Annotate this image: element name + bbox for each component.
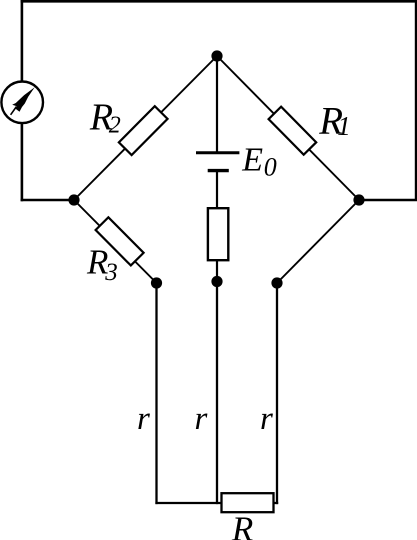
svg-text:E: E <box>241 141 263 178</box>
resistor R body (bottom) <box>222 493 274 512</box>
node left <box>68 194 79 205</box>
node lower-right <box>271 277 282 288</box>
svg-text:3: 3 <box>104 259 118 286</box>
label E0 <box>241 141 276 181</box>
resistor R2 body <box>119 106 168 155</box>
galvanometer <box>1 82 43 124</box>
label R1 <box>318 100 351 143</box>
wire right vertical <box>415 0 417 200</box>
node lower-center <box>211 276 222 287</box>
node right <box>353 194 364 205</box>
svg-text:r: r <box>195 401 208 437</box>
svg-text:r: r <box>260 401 273 437</box>
wire center r vertical <box>216 282 218 505</box>
wire bottom horizontal <box>155 502 278 504</box>
wire diagonal left node to lower-left node <box>74 200 157 283</box>
wire right r vertical <box>276 283 278 504</box>
wire top horizontal <box>21 0 417 3</box>
svg-text:1: 1 <box>337 111 351 141</box>
wire left vertical upper (top wire to galvanometer) <box>21 0 24 82</box>
svg-text:R: R <box>231 509 253 540</box>
node top <box>211 50 222 61</box>
wire battery to center resistor <box>216 171 218 208</box>
svg-text:0: 0 <box>264 153 277 182</box>
node lower-left <box>151 277 162 288</box>
wire right horizontal from right node <box>359 199 417 201</box>
wire diagonal top node to right node <box>217 56 359 200</box>
wire diagonal top node to left node <box>74 56 217 200</box>
wire diagonal right node to lower-right node <box>277 200 359 283</box>
label R2 <box>89 97 121 139</box>
center resistor body (vertical) <box>208 208 228 260</box>
wire center resistor to center lower node <box>216 260 218 283</box>
resistor R1 body <box>269 107 317 155</box>
wire center vertical from top node to battery <box>216 56 218 153</box>
svg-text:2: 2 <box>109 113 121 139</box>
battery E0 short plate <box>208 169 229 172</box>
battery E0 long plate <box>196 151 239 154</box>
resistor R3 body <box>96 217 144 265</box>
label R3 <box>86 243 118 286</box>
svg-text:r: r <box>137 401 150 437</box>
wire left r vertical <box>155 283 157 504</box>
wire left vertical lower (galvanometer to left node) <box>21 123 24 201</box>
wire left horizontal to node <box>21 199 74 202</box>
